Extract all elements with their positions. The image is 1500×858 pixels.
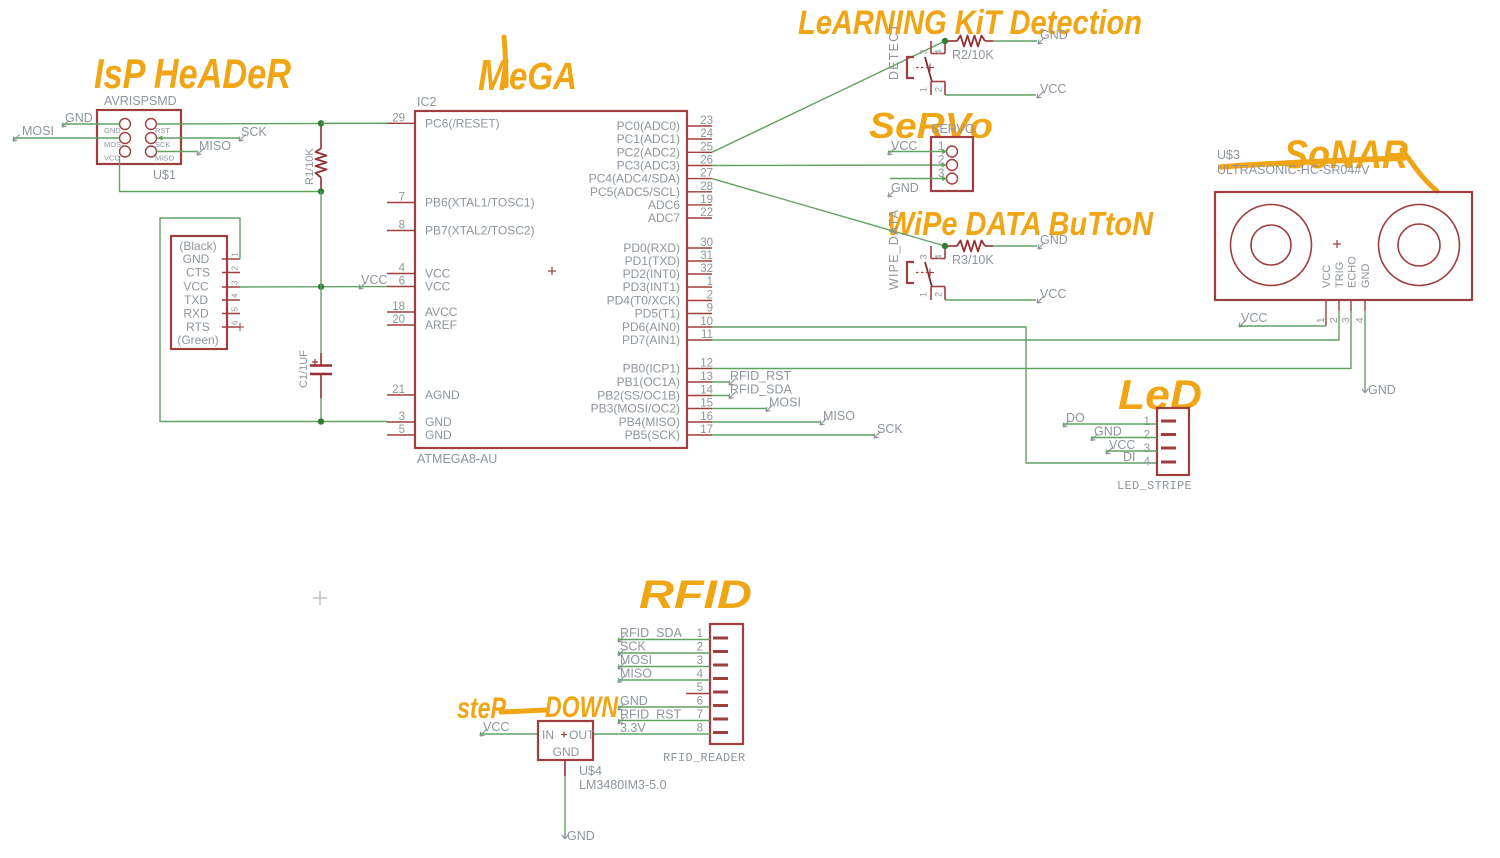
IC2 pin 27 PC4(ADC4/SDA) xyxy=(687,178,712,180)
LED_STRIPE pin bars xyxy=(1161,420,1176,423)
svg-text:GND: GND xyxy=(553,745,580,759)
svg-text:PD2(INT0): PD2(INT0) xyxy=(623,267,680,281)
svg-text:U$1: U$1 xyxy=(153,168,176,182)
svg-text:12: 12 xyxy=(700,358,713,370)
svg-text:PC5(ADC5/SCL): PC5(ADC5/SCL) xyxy=(590,185,680,199)
connector RFID_READER body xyxy=(710,624,743,744)
svg-text:ECHO: ECHO xyxy=(1347,256,1359,288)
svg-text:PB2(SS/OC1B): PB2(SS/OC1B) xyxy=(597,389,680,403)
svg-text:IN: IN xyxy=(542,728,554,742)
svg-text:PD0(RXD): PD0(RXD) xyxy=(623,241,680,255)
svg-text:GND: GND xyxy=(425,415,452,429)
svg-text:16: 16 xyxy=(700,411,713,423)
svg-text:U$3: U$3 xyxy=(1217,148,1240,162)
svg-text:VCC: VCC xyxy=(104,154,120,163)
wire VCC to regulator IN xyxy=(480,733,538,735)
svg-text:RFID_SDA: RFID_SDA xyxy=(730,383,792,397)
svg-text:6: 6 xyxy=(399,276,405,288)
svg-text:GND: GND xyxy=(425,428,452,442)
svg-text:9: 9 xyxy=(707,303,713,315)
IC2 pin 31 PD1(TXD) xyxy=(687,260,712,262)
wire regulator GND down xyxy=(564,776,566,837)
svg-text:PB4(MISO): PB4(MISO) xyxy=(619,415,680,429)
wire MOSI to U$1 pad xyxy=(13,137,120,139)
IC2 pin 21 AGND xyxy=(387,394,415,396)
sonar origin cross xyxy=(1333,243,1341,245)
svg-text:WIPE_DATA: WIPE_DATA xyxy=(887,209,901,290)
IC2 pin 11 PD7(AIN1) xyxy=(687,339,712,341)
svg-text:DOWN: DOWN xyxy=(545,691,619,724)
svg-text:VCC: VCC xyxy=(1321,265,1333,288)
wire IC pin12 to sonar ECHO xyxy=(712,311,1351,369)
svg-text:LeARNING KiT Detection: LeARNING KiT Detection xyxy=(798,4,1142,42)
resistor R2 body xyxy=(957,36,985,47)
svg-text:32: 32 xyxy=(700,263,713,275)
svg-text:GND: GND xyxy=(1368,383,1396,397)
svg-text:MOSI: MOSI xyxy=(104,140,123,149)
svg-text:PC3(ADC3): PC3(ADC3) xyxy=(617,159,680,173)
svg-text:MOSI: MOSI xyxy=(620,653,652,667)
wire C1 to GND rail xyxy=(320,398,322,422)
handwritten label "SONAR" with underline swoosh xyxy=(1221,133,1437,191)
junction GND rail xyxy=(318,418,324,424)
svg-text:RFID_READER: RFID_READER xyxy=(663,751,746,765)
svg-text:2: 2 xyxy=(231,266,240,271)
svg-text:1: 1 xyxy=(1316,317,1327,323)
switch DETECT lever cross xyxy=(926,67,934,69)
junction WIPE_DATA xyxy=(942,243,948,249)
svg-text:19: 19 xyxy=(700,194,713,206)
svg-text:VCC: VCC xyxy=(361,273,387,287)
svg-text:DO: DO xyxy=(1066,411,1085,425)
svg-text:SCK: SCK xyxy=(877,422,903,436)
wire R3 resistor to GND xyxy=(993,245,1037,247)
svg-text:VCC: VCC xyxy=(183,280,209,294)
IC2 pin 7 PB6(XTAL1/TOSC1) xyxy=(387,202,415,204)
svg-text:SCK: SCK xyxy=(241,125,267,139)
svg-text:MISO: MISO xyxy=(155,154,174,163)
switch WIPE_DATA lever xyxy=(925,262,932,287)
connector FTDI body xyxy=(171,236,227,349)
wire VCC to sonar pin1 xyxy=(1239,325,1326,327)
svg-text:5: 5 xyxy=(231,307,240,312)
svg-text:RFID: RFID xyxy=(639,573,752,617)
IC2 pin 22 ADC7 xyxy=(687,217,712,219)
svg-text:R1/10K: R1/10K xyxy=(304,148,316,185)
sonar left transducer xyxy=(1231,205,1312,286)
svg-text:PD7(AIN1): PD7(AIN1) xyxy=(622,333,680,347)
svg-text:PC2(ADC2): PC2(ADC2) xyxy=(617,145,680,159)
svg-text:25: 25 xyxy=(700,141,713,153)
svg-text:(Green): (Green) xyxy=(177,333,218,347)
IC2 pin 28 PC5(ADC5/SCL) xyxy=(687,191,712,193)
IC2 pin 19 ADC6 xyxy=(687,204,712,206)
svg-text:2: 2 xyxy=(697,642,703,654)
IC2 pin 3 GND xyxy=(387,421,415,423)
wire FTDI VCC to IC pin 6 xyxy=(240,286,387,289)
svg-text:30: 30 xyxy=(700,237,713,249)
svg-text:8: 8 xyxy=(399,220,405,232)
svg-text:8: 8 xyxy=(697,723,703,735)
svg-text:2: 2 xyxy=(1329,317,1340,323)
svg-text:4: 4 xyxy=(399,263,406,275)
svg-text:3: 3 xyxy=(919,49,929,54)
wire IC pin10 to LED DI xyxy=(712,327,1157,463)
svg-text:15: 15 xyxy=(700,398,713,410)
svg-text:TXD: TXD xyxy=(184,293,208,307)
svg-text:eGA: eGA xyxy=(509,56,577,98)
svg-text:PB0(ICP1): PB0(ICP1) xyxy=(623,362,680,376)
svg-text:3: 3 xyxy=(1144,443,1150,455)
svg-text:1: 1 xyxy=(919,87,929,92)
svg-text:DETECT: DETECT xyxy=(887,23,901,80)
U$1 pad circles xyxy=(120,119,131,130)
svg-text:U$4: U$4 xyxy=(579,764,602,778)
svg-text:VCC: VCC xyxy=(425,267,451,281)
svg-text:18: 18 xyxy=(392,301,405,313)
svg-text:2: 2 xyxy=(938,155,944,167)
svg-text:1: 1 xyxy=(707,276,713,288)
resistor R1/10K body xyxy=(316,149,327,178)
svg-text:ADC7: ADC7 xyxy=(648,211,680,225)
wire sonar GND down xyxy=(1364,311,1366,391)
connector SERVO body xyxy=(931,137,973,191)
wire WIPE_DATA pin2 to VCC xyxy=(945,299,1036,301)
wire GND to LED pin2 xyxy=(1091,437,1157,439)
svg-text:PC4(ADC4/SDA): PC4(ADC4/SDA) xyxy=(589,172,680,186)
FTDI RTS origin cross xyxy=(236,326,244,328)
IC2 pin 23 PC0(ADC0) xyxy=(687,125,712,127)
svg-text:IC2: IC2 xyxy=(417,95,437,109)
handwritten label "step DOWN" xyxy=(457,691,619,725)
switch DETECT top contact bar xyxy=(931,53,945,55)
svg-text:R2/10K: R2/10K xyxy=(952,48,994,62)
sonar right transducer xyxy=(1379,205,1460,286)
FTDI pin stubs with numbers xyxy=(222,258,240,260)
switch DETECT lever xyxy=(925,57,932,82)
svg-text:R3/10K: R3/10K xyxy=(952,253,994,267)
svg-text:WiPe DATA BuTtoN: WiPe DATA BuTtoN xyxy=(887,205,1154,242)
wire VCC rail down to C1 xyxy=(320,192,322,354)
svg-text:2: 2 xyxy=(707,290,713,302)
svg-text:3.3V: 3.3V xyxy=(620,721,646,735)
svg-text:3: 3 xyxy=(231,280,240,285)
IC2 pin 30 PD0(RXD) xyxy=(687,247,712,249)
wire MISO to U$1 pad xyxy=(157,151,198,153)
svg-text:4: 4 xyxy=(697,669,704,681)
svg-text:2: 2 xyxy=(1144,430,1150,442)
switch DETECT bottom contact bar and pins 1,2 xyxy=(931,81,945,83)
wire DETECT pin2 to VCC xyxy=(945,94,1036,96)
svg-text:GND: GND xyxy=(183,252,210,266)
junction DETECT xyxy=(942,38,948,44)
svg-text:7: 7 xyxy=(697,709,703,721)
IC2 pin 4 VCC xyxy=(387,273,415,275)
svg-text:AVRISPSMD: AVRISPSMD xyxy=(104,94,177,108)
svg-text:MOSI: MOSI xyxy=(769,396,801,410)
resistor R1 leads xyxy=(320,123,322,148)
svg-text:PD6(AIN0): PD6(AIN0) xyxy=(622,320,680,334)
capacitor C1 polarity plus xyxy=(312,361,318,363)
svg-text:RFID_RST: RFID_RST xyxy=(730,369,791,383)
wire DO to LED pin1 xyxy=(1063,423,1157,425)
switch DETECT actuator bracket xyxy=(907,57,914,78)
regulator GND lead xyxy=(564,760,566,776)
wire GND to U$1 pad xyxy=(62,123,120,125)
svg-text:3: 3 xyxy=(697,655,703,667)
svg-text:GND: GND xyxy=(620,694,648,708)
svg-text:PB3(MOSI/OC2): PB3(MOSI/OC2) xyxy=(591,402,680,416)
svg-text:SCK: SCK xyxy=(155,140,170,149)
svg-text:14: 14 xyxy=(700,385,713,397)
wire VCC to LED pin3 xyxy=(1106,450,1157,452)
svg-text:29: 29 xyxy=(392,112,405,124)
svg-text:PB7(XTAL2/TOSC2): PB7(XTAL2/TOSC2) xyxy=(425,224,535,238)
svg-text:GND: GND xyxy=(1040,28,1068,42)
svg-text:22: 22 xyxy=(700,207,713,219)
svg-text:13: 13 xyxy=(700,371,713,383)
svg-text:VCC: VCC xyxy=(1040,287,1066,301)
svg-text:LED_STRIPE: LED_STRIPE xyxy=(1117,479,1192,493)
svg-text:24: 24 xyxy=(700,128,713,140)
svg-text:5: 5 xyxy=(697,682,703,694)
IC2 pin 6 VCC xyxy=(387,286,415,288)
svg-text:RXD: RXD xyxy=(183,307,209,321)
svg-text:VCC: VCC xyxy=(425,280,451,294)
SERVO pad circles xyxy=(947,146,958,157)
capacitor C1 plates xyxy=(310,364,332,367)
junction VCC xyxy=(318,284,324,290)
switch WIPE_DATA pin stubs 3,4 xyxy=(930,246,932,259)
svg-text:LM3480IM3-5.0: LM3480IM3-5.0 xyxy=(579,778,667,792)
svg-text:6: 6 xyxy=(231,320,240,325)
IC2 pin 8 PB7(XTAL2/TOSC2) xyxy=(387,230,415,232)
resistor R3 leads xyxy=(945,245,957,247)
svg-text:PD1(TXD): PD1(TXD) xyxy=(625,254,680,268)
svg-text:31: 31 xyxy=(700,250,713,262)
svg-text:3: 3 xyxy=(1341,317,1352,323)
wire R2 resistor to GND xyxy=(993,40,1037,42)
svg-text:17: 17 xyxy=(700,424,713,436)
svg-text:2: 2 xyxy=(934,87,944,92)
wire IC pin11 to sonar TRIG xyxy=(712,311,1339,340)
svg-text:GND: GND xyxy=(1360,264,1372,289)
IC2 pin 20 AREF xyxy=(387,324,415,326)
switch %s dashed link xyxy=(916,272,926,274)
svg-text:GND: GND xyxy=(65,111,93,125)
svg-text:VCC: VCC xyxy=(483,720,509,734)
svg-text:1: 1 xyxy=(1144,416,1150,428)
svg-text:MOSI: MOSI xyxy=(22,124,54,138)
wire SCK to U$1 pad, arrow at pad xyxy=(157,137,240,139)
RFID_READER pin bars xyxy=(713,637,728,640)
svg-text:RFID_RST: RFID_RST xyxy=(620,708,681,722)
svg-text:PD4(T0/XCK): PD4(T0/XCK) xyxy=(607,294,680,308)
RFID pin5 stub xyxy=(686,693,710,695)
svg-text:ATMEGA8-AU: ATMEGA8-AU xyxy=(417,452,497,466)
svg-text:ADC6: ADC6 xyxy=(648,198,680,212)
svg-text:OUT: OUT xyxy=(569,728,595,742)
svg-text:GND: GND xyxy=(891,181,919,195)
IC2 pin 26 PC3(ADC3) xyxy=(687,165,712,167)
switch %s dashed link xyxy=(916,67,926,69)
IC2 pin 10 PD6(AIN0) xyxy=(687,326,712,328)
capacitor C1 bottom lead xyxy=(320,374,322,398)
svg-text:GND: GND xyxy=(104,126,121,135)
IC2 pin 18 AVCC xyxy=(387,311,415,313)
wire IC pin26 to servo pin2 xyxy=(712,164,945,167)
IC2 pin 29 PC6(/RESET) xyxy=(387,122,415,124)
svg-text:GND: GND xyxy=(1040,233,1068,247)
switch WIPE_DATA bottom contact bar and pins 1,2 xyxy=(931,286,945,288)
svg-text:4: 4 xyxy=(231,293,240,298)
svg-text:4: 4 xyxy=(1144,457,1151,469)
svg-text:4: 4 xyxy=(934,254,944,259)
svg-text:RTS: RTS xyxy=(186,320,210,334)
svg-text:SCK: SCK xyxy=(620,640,646,654)
svg-text:PC6(/RESET): PC6(/RESET) xyxy=(425,116,500,130)
svg-text:10: 10 xyxy=(700,316,713,328)
svg-text:23: 23 xyxy=(700,115,713,127)
svg-text:RFID_SDA: RFID_SDA xyxy=(620,626,682,640)
IC2 pin 17 PB5(SCK) xyxy=(687,434,712,436)
svg-text:ULTRASONIC-HC-SR04#V: ULTRASONIC-HC-SR04#V xyxy=(1217,163,1370,177)
svg-text:RST: RST xyxy=(155,126,170,135)
svg-text:MISO: MISO xyxy=(823,409,855,423)
net label MISO (IC side) xyxy=(712,421,821,423)
svg-text:11: 11 xyxy=(701,329,713,341)
resistor R3 body xyxy=(957,241,985,252)
wire IC pin25 diagonal to detect-button junction xyxy=(712,41,945,152)
wire U$1 VCC pad down and right to R1 bottom junction xyxy=(120,156,322,192)
IC2 pin 5 GND xyxy=(387,434,415,436)
svg-text:21: 21 xyxy=(392,384,405,396)
wire junction to IC pin 29 xyxy=(321,122,387,124)
svg-text:PB6(XTAL1/TOSC1): PB6(XTAL1/TOSC1) xyxy=(425,196,535,210)
svg-text:5: 5 xyxy=(399,424,405,436)
svg-text:IsP HeADeR: IsP HeADeR xyxy=(94,50,292,97)
svg-text:MISO: MISO xyxy=(620,667,652,681)
svg-text:AVCC: AVCC xyxy=(425,305,458,319)
sonar body xyxy=(1215,192,1472,300)
IC2 pin 13 PB1(OC1A) xyxy=(687,381,712,383)
junction R1 bottom xyxy=(318,188,324,194)
svg-text:1: 1 xyxy=(919,292,929,297)
IC2 pin 16 PB4(MISO) xyxy=(687,421,712,423)
svg-text:20: 20 xyxy=(392,314,405,326)
IC2 pin 14 PB2(SS/OC1B) xyxy=(687,395,712,397)
net label SCK (IC side) xyxy=(712,434,875,436)
switch WIPE_DATA top contact bar xyxy=(931,258,945,260)
regulator U$4 body xyxy=(538,721,593,760)
svg-text:VCC: VCC xyxy=(1241,311,1267,325)
svg-text:VCC: VCC xyxy=(1040,82,1066,96)
svg-text:3: 3 xyxy=(399,411,405,423)
svg-text:AREF: AREF xyxy=(425,318,457,332)
net label MOSI (IC side) xyxy=(712,408,767,410)
wire IC pin27 diagonal to wipe-button junction xyxy=(712,179,945,246)
svg-text:6: 6 xyxy=(697,696,703,708)
svg-text:(Black): (Black) xyxy=(179,239,216,253)
svg-text:3: 3 xyxy=(919,254,929,259)
svg-text:GND: GND xyxy=(567,829,595,843)
svg-text:CTS: CTS xyxy=(186,266,210,280)
svg-text:27: 27 xyxy=(700,168,713,180)
svg-text:7: 7 xyxy=(399,192,405,204)
junction R1 top xyxy=(318,120,324,126)
resistor R2 leads xyxy=(945,40,957,42)
svg-text:PB1(OC1A): PB1(OC1A) xyxy=(617,375,680,389)
svg-text:AGND: AGND xyxy=(425,388,460,402)
wire FTDI GND loop to IC GND pin3 xyxy=(160,218,387,422)
wire GND to servo pin3 xyxy=(890,178,947,180)
svg-text:28: 28 xyxy=(700,181,713,193)
IC2 pin 15 PB3(MOSI/OC2) xyxy=(687,408,712,410)
svg-text:PC0(ADC0): PC0(ADC0) xyxy=(617,119,680,133)
IC2 pin 25 PC2(ADC2) xyxy=(687,151,712,153)
IC2 origin cross xyxy=(548,270,556,272)
svg-text:2: 2 xyxy=(934,292,944,297)
svg-text:26: 26 xyxy=(700,155,713,167)
IC2 pin 24 PC1(ADC1) xyxy=(687,138,712,140)
svg-text:C1/1UF: C1/1UF xyxy=(298,350,310,388)
svg-text:MISO: MISO xyxy=(199,139,231,153)
IC2 pin 12 PB0(ICP1) xyxy=(687,368,712,370)
net label RFID_SDA (IC side) xyxy=(712,395,730,397)
capacitor C1 top lead xyxy=(320,353,322,366)
switch WIPE_DATA lever cross xyxy=(926,272,934,274)
origin crosshair xyxy=(313,597,327,599)
switch DETECT pin stubs 3,4 xyxy=(930,41,932,54)
svg-text:4: 4 xyxy=(934,49,944,54)
svg-text:GND: GND xyxy=(1094,425,1122,439)
svg-text:1: 1 xyxy=(697,628,703,640)
IC2 pin 9 PD5(T1) xyxy=(687,313,712,315)
svg-text:PD3(INT1): PD3(INT1) xyxy=(623,280,680,294)
switch WIPE_DATA actuator bracket xyxy=(907,262,914,283)
svg-text:PD5(T1): PD5(T1) xyxy=(635,307,680,321)
IC2 pin 1 PD3(INT1) xyxy=(687,286,712,288)
svg-text:PB5(SCK): PB5(SCK) xyxy=(625,428,680,442)
svg-text:PC1(ADC1): PC1(ADC1) xyxy=(617,132,680,146)
sonar pin stubs xyxy=(1325,300,1327,326)
connector U$1 AVRISPSMD body xyxy=(97,110,181,164)
svg-text:SERVO: SERVO xyxy=(931,122,975,136)
net label RFID_RST (IC side) xyxy=(712,381,730,383)
svg-text:DI: DI xyxy=(1123,450,1136,464)
wire RST pad to R1 top junction to IC pin29 xyxy=(157,122,388,125)
wire VCC to servo pin1 xyxy=(888,151,947,153)
IC2 pin 2 PD4(T0/XCK) xyxy=(687,300,712,302)
svg-text:1: 1 xyxy=(231,252,240,257)
IC2 ATMEGA8-AU body xyxy=(415,111,687,448)
handwritten label "MEGA" xyxy=(478,37,577,100)
connector LED_STRIPE body xyxy=(1157,408,1189,475)
IC2 pin 32 PD2(INT0) xyxy=(687,273,712,275)
svg-text:TRIG: TRIG xyxy=(1334,262,1346,288)
